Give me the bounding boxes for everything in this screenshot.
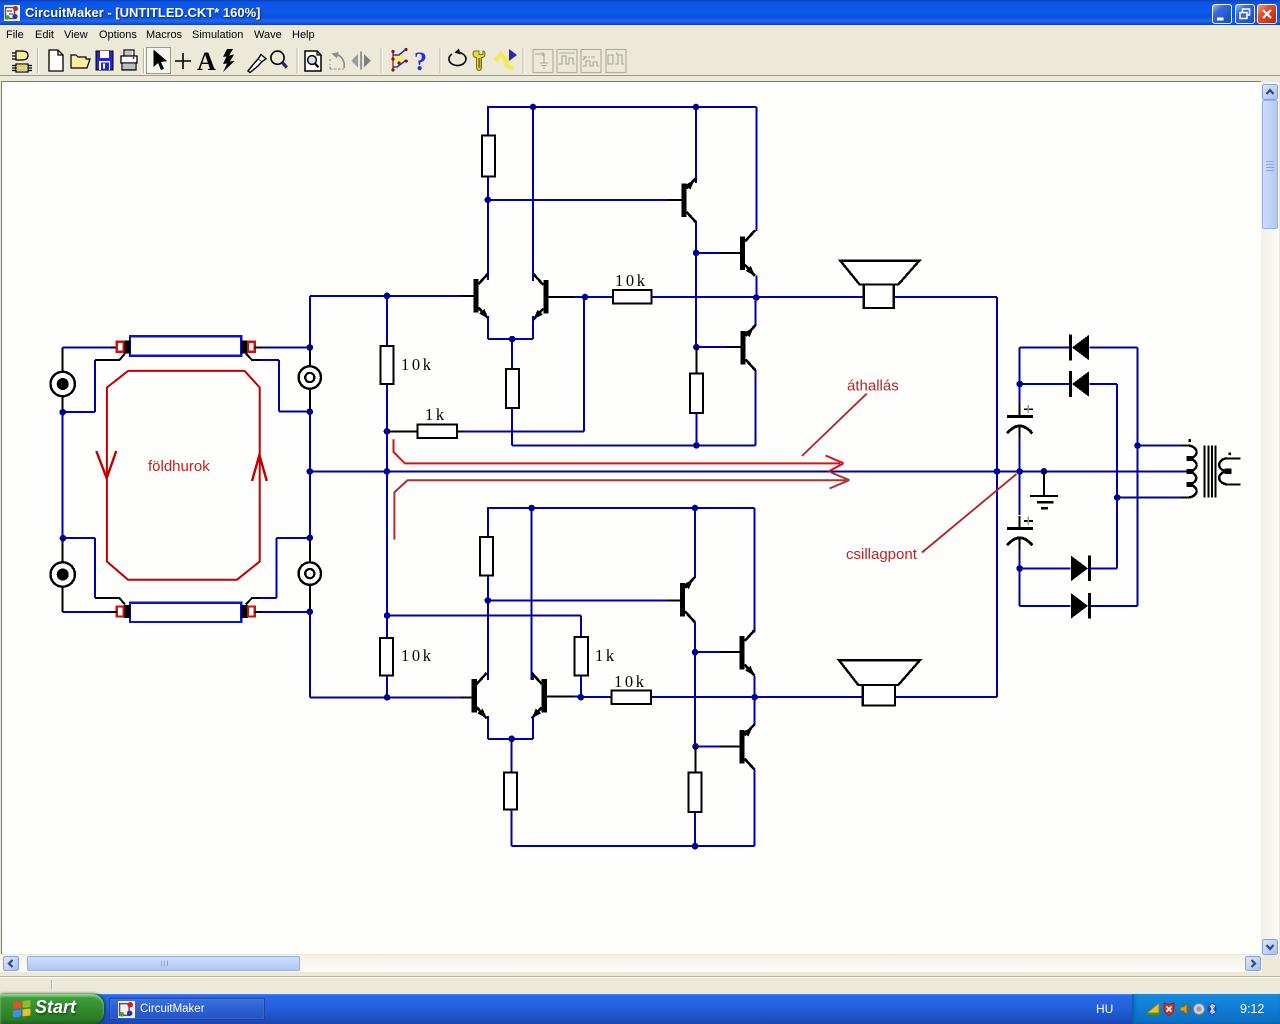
resistor R1 — [482, 136, 495, 177]
csillagpont pointer line — [922, 474, 1017, 553]
taskbar — [0, 994, 1280, 1024]
wire node to Q7 base — [488, 599, 667, 601]
wire Q4 collector join — [532, 277, 534, 281]
loop arrow up (right) — [252, 455, 267, 481]
wire J1 to W1 pin — [63, 346, 111, 348]
node bus / R3 branch — [384, 468, 391, 475]
wire W2 shield left rise — [95, 598, 125, 605]
node ground bus left end — [307, 468, 314, 475]
wire Q11 base pin — [720, 745, 740, 747]
node R12 bottom — [692, 843, 699, 850]
node D3 / C2 — [1016, 565, 1023, 572]
tray icon 4 gray — [1194, 1004, 1205, 1015]
capacitor C1 — [1007, 404, 1033, 437]
node emitter rail / R11 top — [508, 736, 515, 743]
wire output node to Q6 emitter — [755, 298, 757, 327]
node D2 anode / C1 — [1016, 381, 1023, 388]
node cable W2 signal / bus — [307, 608, 314, 615]
wire input to Q8 base — [310, 696, 461, 698]
wire W1 to J3 — [262, 346, 310, 348]
wire Q7 collector down — [694, 621, 696, 652]
wire D1 to right vertical — [1090, 347, 1138, 349]
wire C1 to bus to C2 — [1019, 436, 1021, 515]
wire Q7 base pin — [667, 599, 680, 601]
wire node to Q10 base — [695, 651, 720, 653]
node cable W1 shield / bus — [307, 408, 314, 415]
wire W2 shield right vertical — [276, 538, 278, 598]
svg-text:10k: 10k — [401, 355, 434, 374]
wire W1 right pin — [255, 346, 262, 348]
node Q9 base / R10 / R9 — [578, 694, 585, 701]
wire R6 right pin — [457, 430, 463, 432]
connector J2 (source lower) — [51, 538, 75, 612]
wire D4 to right vertical — [1090, 605, 1138, 607]
wire node to Q2 base — [488, 199, 667, 201]
wire bottom return rail — [512, 845, 755, 847]
transistor Q4 — [533, 274, 548, 320]
wire to D1 — [1020, 347, 1071, 349]
wire node down to ground bus — [386, 431, 388, 471]
node R7 bottom / Q7 base net — [485, 597, 492, 604]
wire node to R11 — [511, 739, 513, 773]
node Q2-Q5 junction — [693, 250, 700, 257]
ground symbol (star point) — [1030, 471, 1058, 508]
svg-text:csillagpont: csillagpont — [846, 546, 918, 563]
wire psu right vertical — [1137, 348, 1139, 606]
wire feedback vertical — [583, 297, 585, 431]
wire Q3 collector join — [487, 276, 489, 280]
wire node to R4 — [511, 339, 513, 369]
wire top rail (upper channel V+) — [488, 106, 757, 108]
transistor Q5 — [740, 230, 755, 276]
wire node to R12 — [695, 746, 697, 772]
svg-text:1k: 1k — [595, 646, 617, 665]
wire Q2 collector down — [695, 222, 697, 253]
transistor Q8 — [472, 673, 487, 719]
wire node to R5 — [695, 347, 697, 373]
title bar — [0, 0, 1280, 25]
wire LS2 to return vertical — [895, 696, 997, 698]
wire W2 to bus — [262, 611, 310, 613]
resistor R6 (1k) — [417, 425, 457, 438]
wire to D3 — [1020, 567, 1071, 569]
vertical scrollbar — [1261, 82, 1279, 955]
wire W1 shield right vertical — [278, 360, 280, 412]
wire ground bus — [310, 470, 1191, 472]
wire emitter rail — [488, 338, 533, 340]
node R8 top / R10 branch — [384, 612, 391, 619]
wire Q9 base pin — [547, 696, 573, 698]
wire J2 to W2 pin — [63, 611, 111, 613]
node Q4 base / R2 / feedback — [582, 294, 589, 301]
wire R8 to base node — [386, 676, 388, 698]
wire node to R8 — [386, 616, 388, 639]
node transformer primary top — [1134, 442, 1141, 449]
wire output to speaker LS2 — [755, 696, 863, 698]
node R1 bottom / Q2 base net — [485, 197, 492, 204]
wire source ground link (loop left edge) — [62, 412, 64, 538]
resistor R3 (10k) — [380, 346, 393, 384]
node lower rail / Q9 collector — [528, 505, 535, 512]
wire node to Q11 base — [696, 745, 720, 747]
svg-text:1k: 1k — [425, 405, 447, 424]
wire LS1 to return vertical — [894, 296, 997, 298]
diode D1 — [1071, 335, 1090, 361]
wire W1 shield right drop — [246, 354, 260, 361]
wire R1 to Q3 collector — [487, 177, 489, 279]
wire lower return upper channel — [512, 444, 756, 446]
resistor R9 (10k) — [611, 691, 651, 704]
connector J3 (amp input upper) — [299, 350, 321, 409]
wire Q9 emitter down — [532, 716, 534, 739]
wire R12 bottom — [694, 812, 696, 846]
node bus / speaker returns — [994, 468, 1001, 475]
node Q7-Q10 junction — [692, 649, 699, 656]
transistor Q6 — [740, 325, 755, 371]
status bar — [0, 972, 1280, 994]
wire W1 shield right link — [260, 359, 279, 361]
wire W2 shield right rise — [246, 598, 260, 605]
node J2 shield — [60, 535, 67, 542]
wire Q10 base pin — [720, 651, 739, 653]
diode D3 — [1071, 556, 1090, 582]
tray icon 5 bluetooth — [1207, 1003, 1216, 1015]
wire to D2 — [1020, 383, 1071, 385]
transistor Q3 — [473, 273, 488, 319]
wire W2 shield left vertical — [94, 538, 96, 598]
tray icon 3 speaker — [1180, 1004, 1187, 1015]
node R8 bottom — [384, 694, 391, 701]
resistor R8 (10k) — [380, 638, 393, 676]
node top-rail / Q4 collector junction — [530, 104, 537, 111]
wire Q10 base net to Q11 base net — [694, 652, 696, 746]
wire Q2 base pin — [667, 199, 681, 201]
connector J1 (source upper) — [51, 347, 75, 412]
wire node to Q5 base — [696, 252, 720, 254]
wire node to R2 — [585, 296, 613, 298]
wire W1 shield to J1 node — [63, 411, 95, 413]
tray icon 2 red shield — [1164, 1003, 1174, 1016]
crosstalk arrow 1 — [394, 439, 844, 471]
wire W2 shield right link — [260, 597, 277, 599]
wire output to speaker LS1 — [756, 296, 863, 298]
resistor R4 — [506, 369, 519, 408]
horizontal scrollbar — [0, 955, 1262, 972]
wire W2 right pin — [255, 611, 262, 613]
wire R11 to bottom return — [511, 810, 513, 847]
wire W1 shield to bus — [279, 411, 310, 413]
node output lower channel — [751, 694, 758, 701]
transistor Q9 — [532, 673, 547, 719]
wire R4 to lower node — [511, 408, 513, 445]
shielded cable W2 — [117, 603, 255, 622]
wire rail to Q9 collector — [531, 508, 533, 680]
wire Q2 emitter pin — [695, 178, 697, 183]
transistor Q10 — [739, 630, 754, 676]
wire node to R3 top — [386, 296, 388, 346]
wire rail to Q4 collector — [532, 107, 534, 280]
node Q6 base / R5 top — [693, 344, 700, 351]
wire Q9 base to node — [573, 696, 581, 698]
wire node to R10 — [387, 615, 581, 617]
node R5 bottom junction — [693, 442, 700, 449]
resistor R10 (1k) — [575, 637, 588, 676]
node bus / capacitor center — [1016, 468, 1023, 475]
wire W1 left pin — [111, 346, 117, 348]
wire Q4 emitter down — [532, 316, 534, 339]
wire primary bottom lead — [1117, 497, 1181, 499]
wire Q3 base pin — [461, 295, 473, 297]
node top-rail / Q2 emitter junction — [693, 104, 700, 111]
wire R7 to Q8 collector — [487, 576, 489, 680]
node input / R3 top — [384, 293, 391, 300]
svg-text:10k: 10k — [401, 646, 434, 665]
wire R9 to output node — [651, 696, 755, 698]
node bus / earth (star point) — [1041, 468, 1048, 475]
menu bar — [0, 25, 1280, 45]
wire W1 shield left vertical — [94, 360, 96, 412]
tray icon 1 — [1147, 1003, 1159, 1013]
transistor Q2 — [681, 177, 696, 223]
wire rail right corner down to Q5 collector — [755, 107, 757, 231]
wire Q8 emitter down — [487, 716, 489, 739]
capacitor C2 — [1007, 516, 1033, 549]
wire R2 to output node — [652, 296, 757, 298]
speaker LS2 — [839, 660, 920, 705]
loop arrow down (left) — [96, 451, 116, 478]
wire Q4 base to R2 node — [573, 296, 585, 298]
áthallás pointer line — [802, 394, 867, 456]
wire Q3 emitter down — [487, 316, 489, 339]
földhurok ground-loop outline — [107, 371, 260, 580]
toolbar — [0, 45, 1280, 76]
node output upper channel — [753, 294, 760, 301]
wire Q11 collector down to return — [754, 770, 756, 847]
speaker LS1 — [840, 261, 919, 308]
wire lower emitter rail — [488, 738, 533, 740]
transistor Q11 — [739, 724, 754, 770]
shielded cable W1 — [117, 336, 255, 355]
wire rail corner down to Q10 collector — [754, 508, 756, 633]
wire R6 to feedback vertical — [463, 430, 584, 432]
wire Q8 collector join — [487, 676, 489, 680]
wire Q6 base pin — [727, 346, 740, 348]
wire psu left vertical top — [1019, 348, 1021, 406]
svg-text:földhurok: földhurok — [148, 458, 210, 475]
wire Q2 emitter to rail — [695, 107, 697, 178]
wire left vertical bus — [309, 296, 311, 698]
node Q11 base / R12 top — [692, 743, 699, 750]
wire W2 shield to J2 node — [63, 537, 95, 539]
wire speaker return vertical — [996, 297, 998, 697]
transformer T1 — [1181, 439, 1240, 498]
node emitter rail / R4 top — [509, 336, 516, 343]
wire Q5 emitter to output node — [755, 275, 757, 297]
wire R10 to node — [580, 675, 582, 697]
node lower rail / Q7 emitter — [692, 505, 699, 512]
diode D2 — [1071, 371, 1090, 397]
wire D2 to mid vertical — [1090, 383, 1118, 385]
wire rail to R7 — [487, 507, 489, 537]
wire bus down to node — [386, 471, 388, 615]
wire C2 to D3 node — [1019, 549, 1021, 606]
wire input to Q3 base — [310, 295, 461, 297]
wire Q5 base net down to Q6 base net — [695, 253, 697, 347]
crosstalk arrow 2 — [394, 473, 849, 540]
resistor R12 — [688, 772, 701, 812]
wire D3 to mid vertical — [1090, 567, 1118, 569]
wire Q7 emitter to rail — [694, 508, 696, 578]
resistor R5 — [690, 374, 703, 414]
wire R5 bottom — [695, 413, 697, 445]
wire Q8 base pin — [461, 696, 472, 698]
connector J4 (amp input lower) — [299, 540, 321, 609]
node cable W2 shield / bus — [307, 535, 314, 542]
svg-text:áthallás: áthallás — [847, 378, 899, 395]
wire Q9 collector join — [532, 676, 534, 680]
wire W2 shield to bus — [277, 537, 310, 539]
resistor R7 — [480, 537, 493, 576]
node cable W1 signal / bus — [307, 344, 314, 351]
wire to D4 — [1020, 605, 1071, 607]
wire Q10 emitter to output node — [754, 676, 756, 697]
wire lower rail (V-) — [488, 507, 755, 509]
node R3 bottom / R6 left — [384, 428, 391, 435]
node transformer primary bottom — [1114, 494, 1121, 501]
diode D4 — [1071, 593, 1090, 619]
wire Q4 base pin — [549, 296, 573, 298]
transistor Q7 — [680, 577, 695, 623]
wire down to R10 — [580, 616, 582, 637]
wire W2 left pin — [111, 611, 117, 613]
wire node to R9 — [581, 696, 612, 698]
wire rail to R1 — [487, 106, 489, 136]
wire primary top lead — [1138, 445, 1182, 447]
wire node to R6 — [387, 430, 418, 432]
wire psu mid vertical — [1116, 384, 1118, 568]
wire output node to Q11 emitter — [754, 697, 756, 725]
resistor R11 — [504, 772, 517, 809]
wire Q6 collector down to return — [755, 370, 757, 446]
node J1 shield — [59, 409, 66, 416]
resistor R2 (10k) — [613, 290, 652, 303]
wire Q5 base pin — [720, 252, 740, 254]
wire R3 to node — [386, 384, 388, 431]
svg-text:10k: 10k — [614, 672, 647, 691]
svg-text:10k: 10k — [615, 271, 648, 290]
wire W1 shield left drop — [95, 354, 125, 361]
wire node to Q6 base — [696, 346, 727, 348]
